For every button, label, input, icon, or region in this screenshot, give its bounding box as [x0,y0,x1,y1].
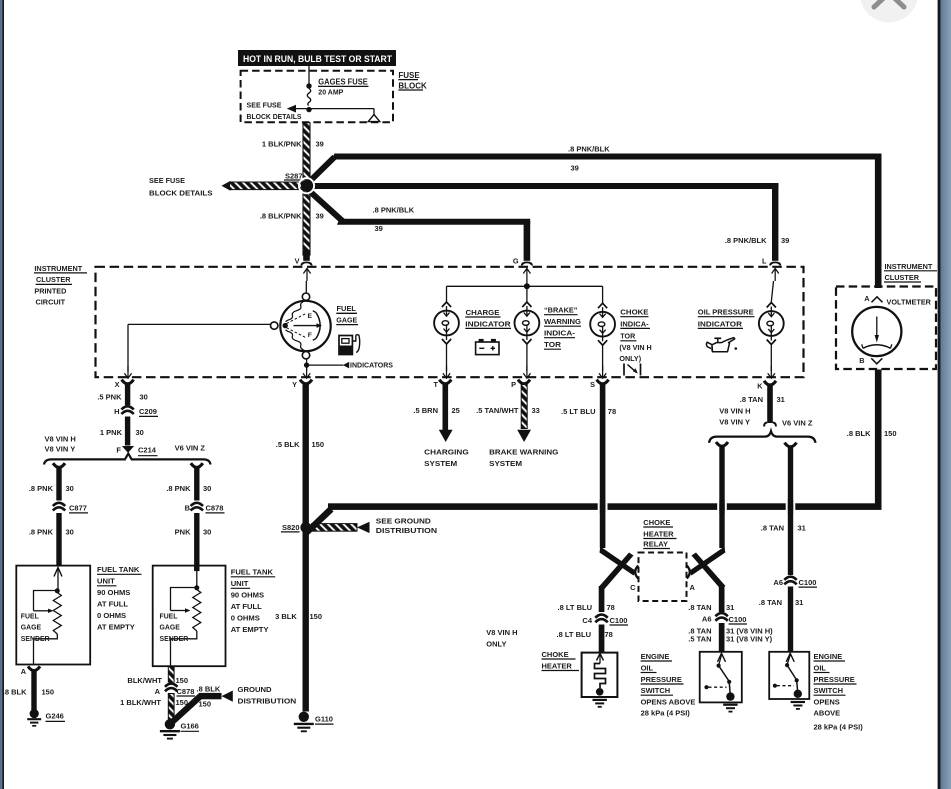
wire S to relay pin C [600,547,637,576]
connector T [434,380,452,390]
svg-text:INSTRUMENT: INSTRUMENT [885,262,933,271]
label V8 VIN H / V8 VIN Y [45,434,76,453]
ground (oil switch 1) [723,705,737,712]
svg-text:30: 30 [66,527,74,536]
ground G246 [27,709,65,726]
title HOT IN RUN, BULB TEST OR START [238,50,396,66]
bracket split C214 [44,454,211,465]
svg-text:39: 39 [316,140,324,149]
svg-text:A: A [155,687,161,696]
svg-text:SYSTEM: SYSTEM [424,459,457,468]
svg-text:AT EMPTY: AT EMPTY [231,625,269,634]
svg-text:CHOKE: CHOKE [542,650,569,659]
label 1 PNK 30 [100,428,144,437]
svg-text:BLOCK DETAILS: BLOCK DETAILS [149,188,213,197]
svg-text:.8 PNK: .8 PNK [29,527,54,536]
svg-text:150: 150 [312,440,325,449]
svg-text:ENGINE: ENGINE [814,652,843,661]
svg-text:GAGE: GAGE [160,624,181,631]
label BLK/WHT 150 [127,676,188,685]
wire crossover to oil switch 1 [692,553,726,614]
connector P [511,380,530,390]
svg-text:SEE FUSE: SEE FUSE [149,176,185,185]
svg-text:.8 LT BLU: .8 LT BLU [558,603,592,612]
svg-text:G246: G246 [46,712,64,721]
svg-text:BRAKE WARNING: BRAKE WARNING [489,448,558,457]
svg-text:INDICA-: INDICA- [544,329,576,338]
svg-text:33: 33 [532,406,540,415]
label SEE GROUND DISTRIBUTION [376,517,437,535]
wire .5 BLK / 3 BLK to G110 [303,384,309,712]
svg-text:V8 VIN H: V8 VIN H [486,628,517,637]
wire choke to S [599,345,606,378]
battery icon [476,339,499,355]
label FUEL GAGE [336,304,358,324]
label .8 TAN 31 (V8 upper) [688,603,734,612]
connector triangle at fuse block [368,115,380,122]
svg-text:AT EMPTY: AT EMPTY [97,623,135,632]
svg-text:.8 PNK/BLK: .8 PNK/BLK [568,145,610,154]
svg-text:WARNING: WARNING [544,317,581,326]
svg-text:.8 PNK/BLK: .8 PNK/BLK [725,236,767,245]
svg-text:20 AMP: 20 AMP [318,90,343,97]
choke heater R1 box [582,653,618,697]
pin A [864,294,882,303]
oil pressure switch S1 box [700,652,742,703]
svg-text:ABOVE: ABOVE [814,709,841,718]
label GROUND DISTRIBUTION [238,685,297,705]
label VOLTMETER [887,298,932,307]
svg-text:150: 150 [884,429,897,438]
wire crossover to choke heater [599,553,634,613]
connector X [115,380,134,389]
wire L to oil bulb [771,281,773,302]
svg-text:CHARGE: CHARGE [466,308,500,317]
svg-text:OIL PRESSURE: OIL PRESSURE [698,308,754,317]
label .5 BRN 25 [413,406,459,415]
svg-text:BLOCK: BLOCK [398,81,427,90]
ground G110 [294,712,334,732]
svg-text:31: 31 [798,524,806,533]
choke valve icon [624,364,641,376]
oil pressure switch S2 box [769,652,809,699]
wire left branch .8 PNK [53,463,65,500]
svg-text:.5 TAN/WHT: .5 TAN/WHT [476,406,519,415]
oil pressure indicator bulb [759,303,784,345]
label .8 LT BLU 78 (upper) [558,603,615,612]
svg-text:FUEL TANK: FUEL TANK [231,568,274,577]
svg-text:BLOCK DETAILS: BLOCK DETAILS [247,112,302,121]
svg-text:1 PNK: 1 PNK [100,428,123,437]
svg-text:.5 PNK: .5 PNK [97,393,122,402]
label FUEL TANK UNIT 90 OHMS (middle) [231,568,276,635]
label .5 BLK 150 [276,440,324,449]
label .8 LT BLU 78 (lower) [557,630,613,639]
svg-text:C: C [630,583,636,592]
wire .8 BLK to G246 [31,671,36,711]
svg-text:OPENS ABOVE: OPENS ABOVE [641,697,696,706]
label .8 TAN 31 (V6 branch) [761,524,806,533]
svg-text:150: 150 [42,687,55,696]
instrument cluster printed circuit box [96,267,804,377]
svg-text:INDICATOR: INDICATOR [698,319,743,328]
relay K1 box [639,553,687,602]
label OIL PRESSURE INDICATOR [698,308,755,329]
fuse block box [241,71,393,123]
label PNK 30 [175,527,212,536]
charge indicator bulb [434,302,459,344]
svg-text:FUEL: FUEL [337,304,357,313]
svg-text:.8 LT BLU: .8 LT BLU [557,630,591,639]
label .5 PNK 30 [97,393,148,402]
svg-text:L: L [762,257,767,266]
label FUEL GAGE SENDER (left) [21,613,50,643]
svg-text:C100: C100 [799,578,817,587]
pin C chevron [630,566,638,592]
label V6 VIN Z [175,444,206,453]
splice S287 [284,171,314,193]
svg-text:.5 BLK: .5 BLK [276,440,300,449]
svg-text:F: F [308,332,312,339]
svg-text:.8 TAN: .8 TAN [740,395,763,404]
label .8 TAN 31 (V8 VIN H) [688,627,773,636]
svg-text:S287: S287 [285,171,303,180]
svg-text:G110: G110 [315,714,333,723]
label .8 BLK 150 (ground distribution) [197,685,221,709]
connector C100 (A6) V6 [773,576,817,587]
svg-text:.8 PNK/BLK: .8 PNK/BLK [373,206,415,215]
oil pressure switch S1 interior [704,653,734,701]
wire .8 TAN from K [764,385,776,426]
connector S [590,380,608,390]
svg-text:ONLY): ONLY) [619,354,641,363]
fuel tank unit left interior sender [34,568,63,665]
svg-text:.8 TAN: .8 TAN [688,603,711,612]
svg-text:INDICATOR: INDICATOR [465,319,511,328]
svg-text:CLUSTER: CLUSTER [36,275,71,284]
fuse block label [398,71,427,90]
wire .5 BRN to charging system [439,384,453,442]
svg-text:H: H [114,407,119,416]
svg-text:.5 LT BLU: .5 LT BLU [561,407,595,416]
svg-text:ONLY: ONLY [486,640,506,649]
svg-text:HEATER: HEATER [643,529,674,538]
svg-text:ENGINE: ENGINE [641,652,670,661]
svg-text:78: 78 [608,407,616,416]
wire BLK/WHT hatched below middle tank [168,666,174,684]
svg-text:39: 39 [781,236,789,245]
svg-text:S: S [590,380,595,389]
svg-text:CHOKE: CHOKE [620,308,648,317]
label .8 PNK 30 (lower) [29,527,74,536]
svg-text:AT FULL: AT FULL [97,600,128,609]
svg-text:FUEL: FUEL [160,613,178,620]
svg-text:G: G [513,257,519,266]
wire .5 PNK [125,384,130,406]
voltmeter M2 [852,307,901,356]
svg-text:GAGES FUSE: GAGES FUSE [318,77,368,86]
svg-text:UNIT: UNIT [231,579,249,588]
label "BRAKE" WARNING INDICA-TOR [544,306,581,350]
svg-text:V8 VIN Y: V8 VIN Y [719,418,750,427]
connector C878 (A) bottom [155,683,195,696]
svg-text:V8 VIN H: V8 VIN H [45,434,76,443]
wire 1 BLK/PNK (hatched) [303,123,310,183]
label CHARGING SYSTEM [424,448,469,469]
label BRAKE WARNING SYSTEM [489,448,558,469]
connector Y [292,380,312,390]
fuse F gages [306,83,311,112]
label .8 BLK 150 [3,687,54,696]
svg-text:SENDER: SENDER [21,636,50,643]
pin A chevron [687,566,696,592]
see fuse block details (inside box) arrow + wire [287,105,374,117]
svg-text:F: F [116,445,121,454]
connector K [757,381,776,391]
connector L [762,257,781,281]
connector C878 (B) [185,502,225,513]
wire oil bulb to K [768,345,775,379]
svg-text:31: 31 [726,603,734,612]
svg-text:B: B [859,356,864,365]
label 1 BLK/WHT 150 [120,698,188,707]
svg-text:FUEL TANK: FUEL TANK [97,565,140,574]
brake warning bulb [515,302,540,344]
hatched arrow see ground distribution [312,522,370,533]
svg-text:INSTRUMENT: INSTRUMENT [34,264,82,273]
wire .8 BLK/PNK (hatched) [303,189,310,261]
svg-text:OIL: OIL [814,663,827,672]
wire V8 branch to relay pin A [689,547,725,576]
connector V [295,257,313,281]
svg-text:INDICA-: INDICA- [620,319,649,328]
node indicators junction [304,359,393,370]
svg-text:CHOKE: CHOKE [643,518,670,527]
svg-text:C877: C877 [69,504,87,513]
svg-text:G166: G166 [181,722,199,731]
wire 1 BLK/WHT hatched [168,694,174,721]
svg-text:.8 PNK: .8 PNK [29,484,54,493]
close button [860,0,918,23]
svg-text:30: 30 [203,484,211,493]
svg-text:3 BLK: 3 BLK [275,612,297,621]
svg-text:“BRAKE”: “BRAKE” [544,306,578,315]
svg-text:CHARGING: CHARGING [424,448,469,457]
svg-text:31: 31 [777,395,785,404]
svg-text:78: 78 [605,630,613,639]
svg-text:78: 78 [607,603,615,612]
svg-text:V: V [295,257,300,266]
svg-text:39: 39 [571,163,579,172]
svg-text:VOLTMETER: VOLTMETER [887,298,932,307]
label 3 BLK 150 [275,612,322,621]
label .5 TAN/WHT 33 [476,406,540,415]
svg-text:SEE FUSE: SEE FUSE [247,100,282,109]
svg-text:S820: S820 [282,523,300,532]
svg-text:.8 BLK: .8 BLK [3,687,27,696]
svg-text:1 BLK/WHT: 1 BLK/WHT [120,698,161,707]
voltmeter cluster box [836,287,936,370]
connector C214 (arrow F) [116,445,157,455]
wire branch 2 (.8 PNK/BLK middle) [309,183,778,261]
fuel tank unit middle interior sender [171,566,201,666]
svg-text:SWITCH: SWITCH [641,686,671,695]
label .8 TAN 31 (K) [740,395,785,404]
svg-text:.8 PNK: .8 PNK [166,484,191,493]
value label GAGES FUSE 20 AMP [318,77,369,96]
svg-text:150: 150 [176,676,189,685]
label 1 BLK/PNK 39 [262,140,324,149]
wire V8 branch (722) [716,442,728,548]
svg-text:30: 30 [203,527,211,536]
label FUEL GAGE SENDER (middle) [160,613,189,643]
wire .5 TAN/WHT to brake warning system (hatched) [517,385,531,443]
svg-text:SYSTEM: SYSTEM [489,459,522,468]
svg-text:HOT IN RUN, BULB TEST OR START: HOT IN RUN, BULB TEST OR START [243,54,393,64]
ground (oil switch 2) [791,702,805,709]
wire brake to P [523,344,530,378]
wire .8 LT BLU lower [599,625,605,653]
fuel pump icon [339,335,360,355]
svg-text:V8 VIN H: V8 VIN H [719,407,750,416]
wire .8 TAN to oil switch 2 [788,587,793,653]
brace split K [709,431,816,443]
wire V to fuel gage [305,281,307,293]
svg-text:0 OHMS: 0 OHMS [231,614,260,623]
svg-text:BLK/WHT: BLK/WHT [127,676,162,685]
svg-text:39: 39 [375,224,383,233]
svg-text:30: 30 [136,428,144,437]
wire PNK lower [194,513,199,571]
wire .8 BLK to ground distribution [167,691,233,727]
oil pressure switch S2 interior [773,653,802,698]
label .8 PNK 30 [29,484,74,493]
svg-text:TOR: TOR [544,340,562,349]
svg-text:CLUSTER: CLUSTER [885,273,920,282]
svg-text:0 OHMS: 0 OHMS [97,611,126,620]
label .8 BLK/PNK 39 [260,212,324,221]
pin B [859,356,882,365]
svg-text:90 OHMS: 90 OHMS [231,591,264,600]
oil can icon [706,338,737,352]
label CHARGE INDICATOR [465,308,511,329]
svg-text:X: X [115,380,120,389]
right viewer bar [938,0,951,789]
svg-text:A6: A6 [773,578,783,587]
svg-text:C4: C4 [582,616,592,625]
wire branch 3 (.8 PNK/BLK lower) [306,188,531,261]
svg-text:(V8 VIN H: (V8 VIN H [619,343,651,352]
svg-text:PRINTED: PRINTED [34,287,66,296]
svg-text:DISTRIBUTION: DISTRIBUTION [376,526,437,535]
left viewer bar [0,0,4,789]
svg-text:B: B [185,504,191,513]
svg-text:SEE GROUND: SEE GROUND [376,517,432,526]
wire 1 PNK [125,417,130,446]
wire crossover gaps [598,500,796,513]
label .8 PNK/BLK 39 (branch 2) [725,236,790,245]
connector C877 [53,502,88,513]
svg-text:.5 TAN: .5 TAN [688,634,711,643]
svg-text:UNIT: UNIT [97,577,115,586]
svg-text:31: 31 [795,598,803,607]
label FUEL TANK UNIT 90 OHMS (left) [97,565,142,632]
connector C100 (C4) [582,614,628,625]
svg-text:PRESSURE: PRESSURE [641,675,682,684]
wire branch 1 (.8 PNK/BLK top) [307,154,882,289]
svg-text:150: 150 [310,612,323,621]
label instrument cluster printed circuit [34,264,87,307]
svg-text:OPENS: OPENS [814,697,840,706]
label V8 VIN H ONLY [486,628,517,649]
fuel tank unit box (middle) [153,566,226,667]
svg-text:C878: C878 [206,504,224,513]
svg-text:AT FULL: AT FULL [231,602,262,611]
svg-text:31 (V8 VIN Y): 31 (V8 VIN Y) [726,634,773,643]
label V8 VIN H / V8 VIN Y (K split) [719,407,750,427]
svg-text:30: 30 [140,393,148,402]
ground (choke heater) [593,700,607,707]
fuel tank unit box (left) [16,566,90,665]
svg-text:CIRCUIT: CIRCUIT [36,298,66,307]
svg-text:DISTRIBUTION: DISTRIBUTION [238,697,297,706]
label .5 LT BLU 78 [561,407,616,416]
svg-text:A: A [690,583,696,592]
svg-text:GAGE: GAGE [21,624,42,631]
svg-text:90 OHMS: 90 OHMS [97,588,130,597]
label SEE FUSE BLOCK DETAILS (left) [149,176,213,197]
svg-text:E: E [308,313,313,320]
svg-text:K: K [757,381,763,390]
splice S820 [281,522,311,533]
svg-text:C214: C214 [138,446,157,455]
label CHOKE HEATER [542,650,580,671]
svg-text:V6 VIN Z: V6 VIN Z [782,419,813,428]
label .8 PNK/BLK 39 (branch 3) [373,206,415,233]
svg-text:T: T [434,380,439,389]
wire fuse feed [308,66,310,84]
label ENGINE OIL PRESSURE SWITCH (1) [641,652,696,718]
svg-text:.8 BLK: .8 BLK [847,429,871,438]
svg-text:FUEL: FUEL [21,613,39,620]
svg-text:TOR: TOR [620,332,635,341]
svg-text:.8 BLK/PNK: .8 BLK/PNK [260,212,302,221]
wire .8 PNK lower [56,513,61,566]
label .5 TAN 31 (V8 VIN Y) [688,634,772,643]
svg-text:PNK: PNK [175,527,191,536]
svg-text:Y: Y [292,380,297,389]
svg-text:P: P [511,380,516,389]
svg-text:SWITCH: SWITCH [814,686,844,695]
svg-text:INDICATORS: INDICATORS [350,363,393,370]
node S287 junction dot [299,178,314,193]
choke indicator bulb [590,303,615,345]
svg-text:39: 39 [316,212,324,221]
connector C209 [114,405,158,416]
svg-text:A: A [864,294,870,303]
svg-text:25: 25 [452,406,460,415]
label .8 PNK/BLK 39 (branch 1) [568,145,610,173]
svg-text:HEATER: HEATER [542,661,573,670]
label .8 PNK 30 (right) [166,484,211,493]
label .8 BLK 150 [847,429,897,438]
svg-text:GAGE: GAGE [336,316,357,325]
connector A (left tank) [21,666,40,675]
svg-text:1 BLK/PNK: 1 BLK/PNK [262,140,302,149]
choke heater element [595,654,606,696]
label .8 TAN 31 (V6 lower) [759,598,804,607]
wire fuel gage left to X [124,324,270,378]
